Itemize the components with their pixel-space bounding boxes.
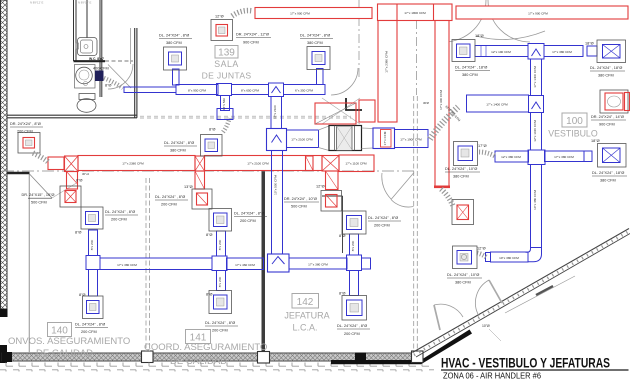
svg-text:DL. 24"X24" , 10"Ø: DL. 24"X24" , 10"Ø — [445, 167, 477, 171]
svg-text:DE CALIDAD: DE CALIDAD — [36, 348, 93, 359]
svg-text:8"Ø: 8"Ø — [339, 234, 345, 238]
svg-text:DE JUNTAS: DE JUNTAS — [202, 71, 252, 81]
svg-text:17"x 380 CFM: 17"x 380 CFM — [552, 50, 572, 54]
svg-text:200 CFM: 200 CFM — [240, 219, 256, 223]
svg-text:12"x 380 CFM: 12"x 380 CFM — [501, 155, 521, 159]
svg-text:N 89°12' E: N 89°12' E — [78, 1, 91, 5]
svg-text:DL. 24"X24" , 8"Ø: DL. 24"X24" , 8"Ø — [234, 212, 264, 216]
svg-text:17"x 2100 CFM: 17"x 2100 CFM — [247, 162, 269, 166]
svg-text:DR. 24"X15" , 10"Ø: DR. 24"X15" , 10"Ø — [22, 193, 55, 197]
svg-text:DL. 24"X24" , 8"Ø: DL. 24"X24" , 8"Ø — [164, 141, 194, 145]
svg-text:DL. 24"X24" , 18"Ø: DL. 24"X24" , 18"Ø — [455, 66, 487, 70]
svg-text:10"Ø: 10"Ø — [482, 324, 490, 328]
svg-text:DL. 24"X24" , 8"Ø: DL. 24"X24" , 8"Ø — [300, 34, 330, 38]
svg-text:10"x 380 CFM: 10"x 380 CFM — [533, 190, 537, 210]
svg-text:139: 139 — [218, 48, 235, 59]
svg-text:DL. 24"X24" , 8"Ø: DL. 24"X24" , 8"Ø — [155, 195, 185, 199]
svg-text:12"x 1020 CFM: 12"x 1020 CFM — [533, 120, 537, 142]
svg-text:17"x 900 CFM: 17"x 900 CFM — [290, 12, 310, 16]
svg-text:8"Ø: 8"Ø — [105, 84, 111, 88]
svg-text:17"x 380 CFM: 17"x 380 CFM — [117, 263, 137, 267]
svg-text:400 CFM: 400 CFM — [93, 67, 109, 71]
svg-text:18"Ø: 18"Ø — [585, 42, 594, 46]
svg-text:17"x CFM: 17"x CFM — [383, 131, 387, 145]
svg-text:DL. 24"X24" , 8"Ø: DL. 24"X24" , 8"Ø — [368, 216, 398, 220]
svg-text:17"x 1400 CFM: 17"x 1400 CFM — [486, 103, 508, 107]
svg-text:17"x 900 CFM: 17"x 900 CFM — [528, 11, 548, 15]
svg-text:13"Ø: 13"Ø — [184, 185, 193, 189]
svg-text:380 CFM: 380 CFM — [307, 41, 323, 45]
svg-text:ONVOS. ASEGURAMIENTO: ONVOS. ASEGURAMIENTO — [8, 336, 130, 347]
svg-text:17"x 900 CFM: 17"x 900 CFM — [439, 90, 443, 110]
svg-text:12"Ø: 12"Ø — [215, 15, 224, 19]
svg-text:8"Ø: 8"Ø — [76, 179, 82, 183]
svg-text:380 CFM: 380 CFM — [462, 73, 478, 77]
svg-text:8"x 200: 8"x 200 — [351, 241, 355, 252]
svg-text:30'Ø: 30'Ø — [423, 101, 430, 105]
svg-text:380 CFM: 380 CFM — [598, 74, 614, 78]
svg-text:SALA: SALA — [214, 59, 239, 69]
svg-text:ZONA 06 - AIR HANDLER #6: ZONA 06 - AIR HANDLER #6 — [443, 372, 542, 380]
svg-text:6"x 350 CFM: 6"x 350 CFM — [295, 89, 313, 93]
svg-text:17"Ø: 17"Ø — [478, 144, 487, 148]
svg-text:30"x2: 30"x2 — [82, 172, 90, 176]
svg-text:200 CFM: 200 CFM — [111, 218, 127, 222]
svg-text:8"Ø: 8"Ø — [75, 231, 81, 235]
svg-text:500 CFM: 500 CFM — [31, 201, 47, 205]
svg-text:12"x 190 CFM: 12"x 190 CFM — [491, 50, 511, 54]
svg-text:17"x 2100: 17"x 2100 — [273, 105, 277, 119]
svg-text:140: 140 — [51, 326, 68, 337]
svg-text:12"Ø: 12"Ø — [316, 185, 325, 189]
svg-text:8"Ø: 8"Ø — [79, 293, 85, 297]
svg-text:COORD. ASEGURAMIENTO: COORD. ASEGURAMIENTO — [144, 342, 267, 353]
svg-text:200 CFM: 200 CFM — [374, 224, 390, 228]
svg-text:380 CFM: 380 CFM — [455, 281, 471, 285]
svg-text:JEFATURA: JEFATURA — [284, 311, 329, 321]
svg-text:DL. 24"X24" , 8"Ø: DL. 24"X24" , 8"Ø — [105, 210, 135, 214]
svg-text:DL. 24"X24" , 8"Ø: DL. 24"X24" , 8"Ø — [159, 34, 189, 38]
svg-text:900 CFM: 900 CFM — [243, 41, 259, 45]
svg-text:DL. 24"X24" , 8"Ø: DL. 24"X24" , 8"Ø — [205, 321, 235, 325]
svg-text:N 89°12' E: N 89°12' E — [30, 1, 43, 5]
svg-text:L.C.A.: L.C.A. — [292, 323, 317, 333]
svg-text:900 CFM: 900 CFM — [599, 123, 615, 127]
svg-text:10"x 500 CFM: 10"x 500 CFM — [274, 175, 278, 195]
svg-text:200 CFM: 200 CFM — [81, 330, 97, 334]
svg-text:500 CFM: 500 CFM — [291, 205, 307, 209]
svg-text:8"Ø: 8"Ø — [209, 128, 215, 132]
svg-text:200 CFM: 200 CFM — [161, 203, 177, 207]
svg-text:17"x 1400 CFM: 17"x 1400 CFM — [533, 66, 537, 88]
svg-text:8"x 200: 8"x 200 — [218, 240, 222, 251]
svg-text:17"x 1100 CFM: 17"x 1100 CFM — [345, 162, 367, 166]
svg-text:DL. 24"X24" , 8"Ø: DL. 24"X24" , 8"Ø — [75, 323, 105, 327]
svg-text:DR. 24"X24" , 14"Ø: DR. 24"X24" , 14"Ø — [591, 115, 624, 119]
svg-text:8"x 200: 8"x 200 — [218, 277, 222, 288]
svg-text:200 CFM: 200 CFM — [212, 329, 228, 333]
svg-text:18"Ø: 18"Ø — [475, 34, 484, 38]
svg-text:17"x 2380 CFM: 17"x 2380 CFM — [385, 51, 389, 73]
svg-text:17"x 1800 CFM: 17"x 1800 CFM — [404, 11, 426, 15]
svg-text:17"x 460 CFM: 17"x 460 CFM — [235, 263, 255, 267]
svg-text:DL. 24"X24" , 10"Ø: DL. 24"X24" , 10"Ø — [447, 273, 479, 277]
svg-text:380 CFM: 380 CFM — [170, 149, 186, 153]
svg-text:HVAC - VESTIBULO Y JEFATURAS: HVAC - VESTIBULO Y JEFATURAS — [441, 356, 610, 371]
svg-text:DR. 24"X24" , 10"Ø: DR. 24"X24" , 10"Ø — [284, 197, 317, 201]
svg-text:8"Ø: 8"Ø — [206, 233, 212, 237]
svg-text:17"x 1900 CFM: 17"x 1900 CFM — [400, 138, 422, 142]
svg-text:10"x 380 CFM: 10"x 380 CFM — [499, 256, 519, 260]
svg-text:200 CFM: 200 CFM — [344, 332, 360, 336]
svg-text:17"x 380 CFM: 17"x 380 CFM — [554, 155, 574, 159]
svg-text:17"x 380 CFM: 17"x 380 CFM — [308, 262, 328, 266]
svg-text:17"x 2380 CFM: 17"x 2380 CFM — [122, 162, 144, 166]
svg-text:380 CFM: 380 CFM — [453, 175, 469, 179]
svg-text:14"x 560: 14"x 560 — [222, 98, 226, 110]
svg-text:8"x 650 CFM: 8"x 650 CFM — [241, 89, 259, 93]
svg-text:17"x 2100 CFM: 17"x 2100 CFM — [291, 138, 313, 142]
svg-text:200 CFM: 200 CFM — [17, 130, 33, 134]
svg-text:DL. 24"X24" , 8"Ø: DL. 24"X24" , 8"Ø — [337, 324, 367, 328]
svg-text:8"Ø: 8"Ø — [206, 293, 212, 297]
svg-text:VESTIBULO: VESTIBULO — [548, 129, 598, 139]
svg-text:380 CFM: 380 CFM — [600, 179, 616, 183]
svg-text:DR. 24"X24" , 8"Ø: DR. 24"X24" , 8"Ø — [10, 122, 41, 126]
svg-text:142: 142 — [297, 297, 314, 308]
svg-text:100: 100 — [566, 116, 583, 127]
svg-text:DL. 24"X24" , 18"Ø: DL. 24"X24" , 18"Ø — [590, 66, 622, 70]
svg-text:W.C. 8’x7: W.C. 8’x7 — [89, 57, 104, 61]
svg-text:DR. 24"X24" , 12"Ø: DR. 24"X24" , 12"Ø — [236, 33, 269, 37]
svg-text:18"Ø: 18"Ø — [591, 139, 600, 143]
svg-text:DL. 24"X24" , 18"Ø: DL. 24"X24" , 18"Ø — [592, 171, 624, 175]
svg-text:DE CALIDAD: DE CALIDAD — [170, 356, 227, 367]
svg-text:8"x 950 CFM: 8"x 950 CFM — [188, 89, 206, 93]
svg-text:8"x 200: 8"x 200 — [90, 240, 94, 251]
svg-text:8"Ø: 8"Ø — [339, 292, 345, 296]
svg-text:380 CFM: 380 CFM — [166, 41, 182, 45]
svg-text:12"Ø: 12"Ø — [477, 247, 486, 251]
